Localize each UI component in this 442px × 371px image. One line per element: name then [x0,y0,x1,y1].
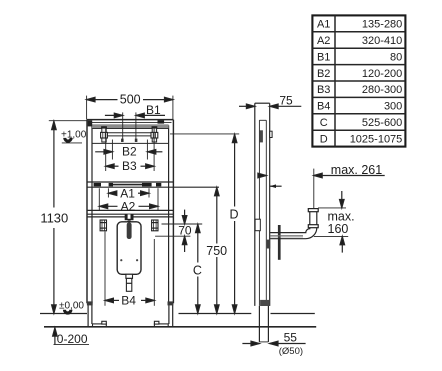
top crossbar [106,132,153,134]
dimension B3 [106,128,154,174]
table row lines [312,32,405,130]
svg-text:500: 500 [120,93,141,107]
dimension 0-200 [53,328,89,346]
dimension 70 [155,210,202,252]
faucet nipple left [121,139,124,142]
pipe coupling ring lower [308,225,318,228]
drain downpipe below floor [259,306,268,342]
right foot [154,324,168,327]
supply stub [270,131,272,137]
faucet nipple right [135,139,138,142]
svg-text:75: 75 [279,93,293,107]
trap outlet stub [126,278,131,291]
top-right corner block [158,120,165,123]
svg-text:±0,00: ±0,00 [59,300,84,311]
frame right rail [168,125,170,303]
dimension 750 [206,187,227,313]
svg-text:750: 750 [206,244,227,258]
rail hatch block [259,130,263,142]
svg-text:320-410: 320-410 [362,35,402,47]
lower bolt right [152,220,158,231]
drain outlet pipe [270,212,317,239]
raw floor line [44,326,316,328]
svg-text:70: 70 [178,223,192,237]
level mark ±0,00 [59,300,84,314]
svg-text:C: C [320,117,328,129]
side view rail [255,103,270,306]
drain inlet connector [125,214,134,220]
dimension max. 160 [314,191,355,253]
frame top bar [87,119,173,121]
dimension 75 [239,93,301,108]
svg-text:160: 160 [328,222,349,236]
svg-text:120-200: 120-200 [362,68,402,80]
svg-text:D: D [320,133,328,145]
dimension B2 [95,140,162,160]
svg-text:300: 300 [384,101,402,113]
dimension B4 [105,232,154,308]
right leg [168,303,170,324]
svg-text:525-600: 525-600 [362,117,402,129]
dimension 1130 [40,121,87,314]
table text [317,19,402,146]
svg-text:B4: B4 [121,293,136,307]
dimension A1 [108,186,149,200]
svg-text:B1: B1 [317,51,330,63]
svg-text:1025-1075: 1025-1075 [350,133,403,145]
svg-text:B2: B2 [317,68,330,80]
table column divider [334,15,336,146]
svg-text:A1: A1 [317,19,330,31]
odour trap [117,222,141,274]
top bolt right [151,126,158,142]
top-left corner block [88,120,93,126]
dimension 500 [87,93,173,120]
svg-text:A1: A1 [120,186,135,200]
dimension B1 [105,103,165,141]
level mark +1,00 [61,130,87,143]
dimension A2 [99,188,158,213]
svg-text:280-300: 280-300 [362,84,402,96]
pipe clamp [255,219,260,231]
svg-text:max. 261: max. 261 [331,163,382,177]
svg-text:(Ø50): (Ø50) [279,346,303,357]
svg-text:D: D [229,207,238,221]
svg-text:B2: B2 [122,145,137,159]
svg-text:B3: B3 [122,159,137,173]
rail coupling sleeve [260,300,270,306]
dimension 55 [242,331,305,358]
svg-text:A2: A2 [317,35,330,47]
lower crossbar [87,209,173,211]
svg-text:A2: A2 [121,199,136,213]
finished floor level line [40,313,87,315]
wall bracket arm [270,184,282,188]
table outer border [312,15,405,146]
bracket bar [278,225,281,260]
left foot [93,324,107,327]
trap neck [126,274,133,278]
pipe coupling ring top [308,209,318,212]
lower bolt left [100,220,106,231]
svg-text:135-280: 135-280 [362,19,402,31]
svg-text:B3: B3 [317,84,330,96]
top section bottom line [92,142,169,144]
left leg [87,303,89,326]
basin support rail [87,181,173,183]
svg-text:B4: B4 [317,101,330,113]
svg-text:0-200: 0-200 [57,332,88,346]
top bolt left [101,126,108,142]
dimension D [170,134,239,313]
rail dark dash [267,240,270,249]
svg-text:55: 55 [284,331,298,345]
svg-text:1130: 1130 [40,211,68,226]
svg-text:B1: B1 [146,103,161,117]
svg-text:80: 80 [390,51,402,63]
svg-text:C: C [193,264,202,278]
dimension C [193,224,202,313]
dimension max. 261 [258,163,385,209]
frame left rail [86,120,88,304]
